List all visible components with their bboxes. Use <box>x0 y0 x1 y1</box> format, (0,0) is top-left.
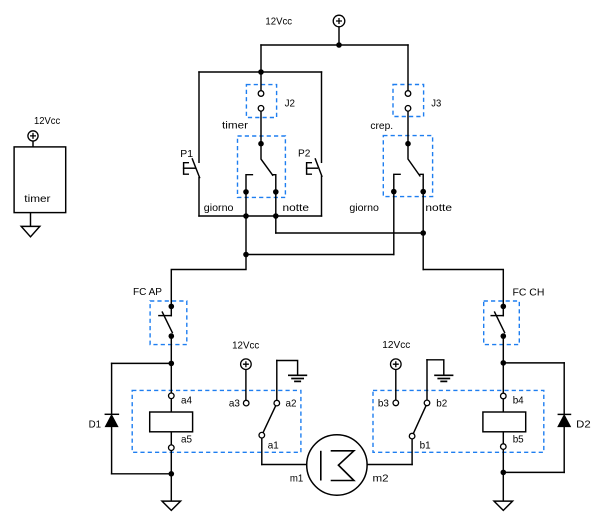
svg-text:giorno: giorno <box>349 202 379 214</box>
svg-text:m1: m1 <box>290 472 304 484</box>
svg-text:FC AP: FC AP <box>133 286 162 298</box>
svg-text:b4: b4 <box>513 395 524 407</box>
svg-text:12Vcc: 12Vcc <box>34 115 60 127</box>
svg-text:a2: a2 <box>286 397 297 409</box>
svg-text:notte: notte <box>283 202 310 214</box>
svg-text:b1: b1 <box>420 440 431 452</box>
svg-text:12Vcc: 12Vcc <box>265 16 292 28</box>
svg-text:12Vcc: 12Vcc <box>382 339 410 351</box>
svg-text:b2: b2 <box>436 397 447 409</box>
svg-text:notte: notte <box>425 202 452 214</box>
svg-text:FC CH: FC CH <box>513 287 545 299</box>
svg-text:giorno: giorno <box>204 202 234 214</box>
svg-text:P2: P2 <box>298 148 311 160</box>
svg-text:J3: J3 <box>431 98 441 110</box>
svg-text:J2: J2 <box>285 98 296 110</box>
svg-text:b3: b3 <box>378 397 389 409</box>
svg-text:12Vcc: 12Vcc <box>232 340 259 352</box>
svg-text:crep.: crep. <box>370 120 393 132</box>
svg-text:a4: a4 <box>181 395 192 407</box>
svg-text:timer: timer <box>222 120 249 132</box>
svg-text:D2: D2 <box>576 419 591 431</box>
svg-text:b5: b5 <box>513 434 524 446</box>
svg-text:a3: a3 <box>229 397 240 409</box>
svg-text:m2: m2 <box>373 472 389 484</box>
svg-text:a5: a5 <box>181 434 192 446</box>
svg-text:D1: D1 <box>89 419 102 431</box>
svg-text:a1: a1 <box>268 440 279 452</box>
svg-text:timer: timer <box>24 193 51 205</box>
svg-text:P1: P1 <box>180 148 193 160</box>
